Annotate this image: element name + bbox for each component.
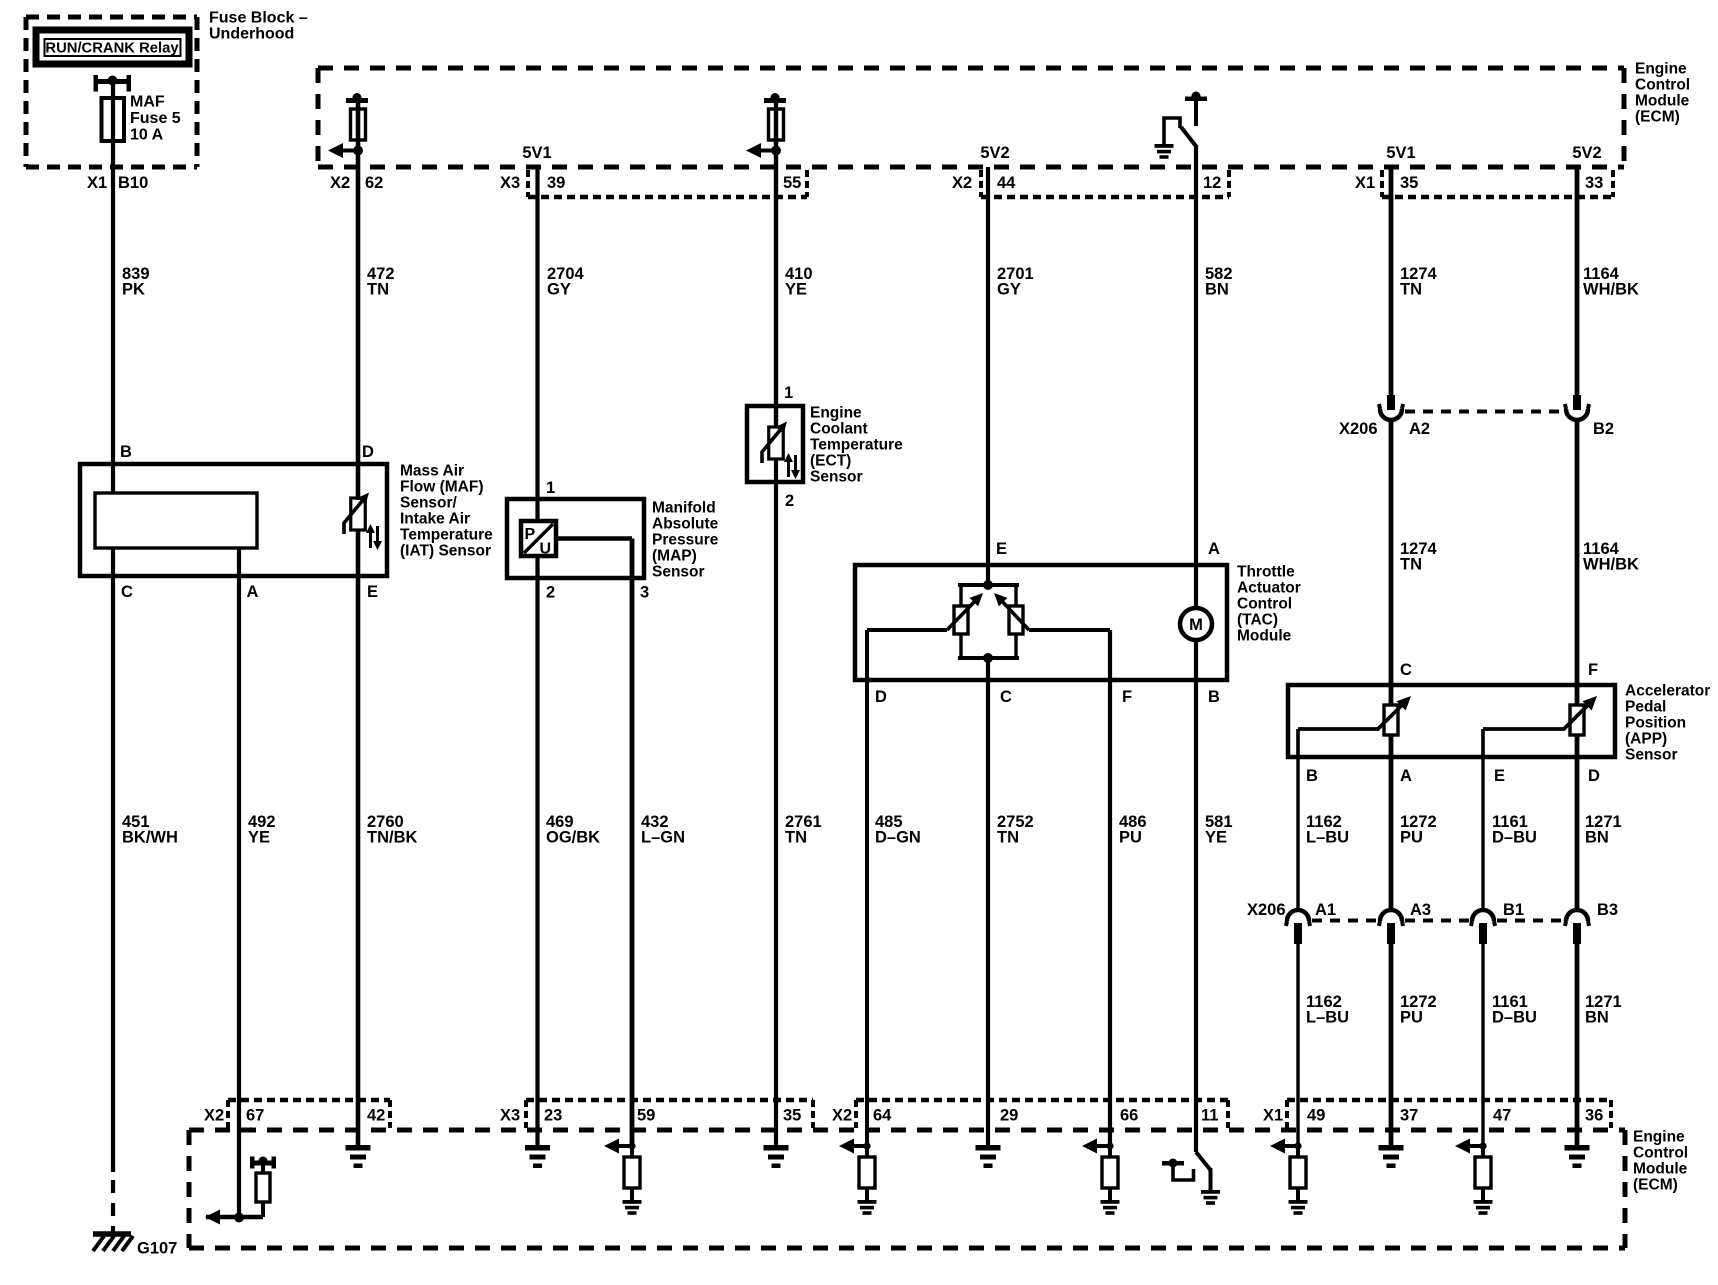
pin 67 pull-up and continuation arrow — [205, 1157, 276, 1225]
APP wiper wire B — [1296, 729, 1299, 757]
svg-text:Pressure: Pressure — [652, 531, 719, 548]
MAP P/U transducer — [521, 521, 556, 558]
wire 1271 BN lower — [1575, 941, 1580, 1146]
svg-text:TN: TN — [785, 828, 807, 846]
ECT sensor box — [747, 406, 803, 482]
5V reference fuse at ECM pin 55 — [746, 93, 786, 158]
APP sensor box — [1288, 685, 1615, 757]
svg-text:37: 37 — [1400, 1107, 1418, 1125]
svg-text:PU: PU — [1119, 828, 1142, 846]
labels X206 A2 B2 — [1339, 420, 1614, 438]
connector X206 B3 — [1565, 910, 1589, 944]
connector X1 pin labels 35 33 — [1355, 174, 1603, 192]
MAP pin numbers 1 2 3 — [546, 479, 649, 602]
svg-text:64: 64 — [873, 1107, 892, 1125]
svg-text:M: M — [1189, 616, 1203, 634]
svg-text:A2: A2 — [1409, 420, 1430, 438]
label Engine Control Module (ECM) bottom right — [1633, 1128, 1688, 1193]
wire 410 YE — [774, 100, 778, 428]
svg-text:Mass Air: Mass Air — [400, 462, 464, 479]
svg-text:D–BU: D–BU — [1492, 1008, 1537, 1026]
fuse MAF Fuse 5 10A — [94, 75, 132, 141]
svg-text:Module: Module — [1633, 1160, 1688, 1177]
svg-text:TN: TN — [1400, 280, 1422, 298]
svg-text:A: A — [1400, 767, 1412, 785]
svg-text:Actuator: Actuator — [1237, 579, 1301, 596]
svg-text:A: A — [1208, 540, 1220, 558]
ECM top dashed box — [318, 68, 1624, 167]
wire 839 PK — [111, 83, 115, 493]
wire 1272 PU lower — [1389, 941, 1394, 1146]
wire 2701 GY — [986, 167, 990, 585]
label Throttle Actuator Control (TAC) Module — [1237, 563, 1301, 644]
wire 451 BK/WH — [111, 548, 115, 1172]
ECT pin numbers 1 2 — [784, 384, 794, 510]
svg-text:G107: G107 — [137, 1240, 177, 1258]
wire 432 L-GN — [556, 536, 632, 541]
ground G107 — [93, 1234, 133, 1251]
wire 451 BK/WH dashed to G107 — [111, 1180, 115, 1233]
svg-text:Absolute: Absolute — [652, 515, 719, 532]
svg-text:Throttle: Throttle — [1237, 563, 1295, 580]
svg-text:X2: X2 — [832, 1107, 852, 1125]
connector X3 pins 39 55 dotted box — [528, 170, 807, 197]
connector X2 pin labels 44 12 — [952, 174, 1221, 192]
APP wiper wire E — [1481, 729, 1484, 757]
svg-text:WH/BK: WH/BK — [1583, 280, 1639, 298]
svg-text:PU: PU — [1400, 1008, 1423, 1026]
pin 47 termination arrow resistor ground — [1455, 1139, 1493, 1215]
TAC wiper wire F — [1029, 628, 1110, 632]
svg-text:(TAC): (TAC) — [1237, 611, 1278, 628]
svg-text:(IAT) Sensor: (IAT) Sensor — [400, 542, 491, 559]
wire 1161 D-BU upper — [1481, 729, 1484, 909]
wire 472 TN — [356, 100, 361, 500]
pin 42 ground — [346, 1145, 371, 1168]
svg-text:1: 1 — [784, 384, 793, 402]
svg-text:12: 12 — [1203, 174, 1221, 192]
svg-text:BN: BN — [1585, 1008, 1609, 1026]
svg-text:39: 39 — [547, 174, 565, 192]
wire 2752 TN — [986, 658, 990, 1146]
svg-text:X2: X2 — [204, 1107, 224, 1125]
svg-text:66: 66 — [1120, 1107, 1138, 1125]
connector X2 labels 67 42 — [204, 1107, 385, 1125]
wire 486 PU — [1108, 630, 1112, 1146]
svg-text:D: D — [875, 688, 887, 706]
svg-text:YE: YE — [1205, 828, 1227, 846]
wire 469 OG/BK — [535, 556, 539, 1146]
svg-text:Fuse Block –: Fuse Block – — [209, 10, 308, 27]
svg-text:(APP): (APP) — [1625, 730, 1667, 747]
connector X3 labels 23 59 35 — [500, 1107, 801, 1125]
svg-text:C: C — [1400, 661, 1412, 679]
svg-text:E: E — [996, 540, 1007, 558]
svg-text:47: 47 — [1493, 1107, 1511, 1125]
svg-text:A1: A1 — [1315, 901, 1336, 919]
svg-text:33: 33 — [1585, 174, 1603, 192]
ECM bottom dashed box — [189, 1130, 1625, 1248]
svg-text:TN: TN — [1400, 555, 1422, 573]
X206 upper dashed link — [1405, 410, 1563, 414]
svg-text:3: 3 — [640, 584, 649, 602]
svg-text:Control: Control — [1633, 1144, 1688, 1161]
wire 1164 WH/BK upper — [1575, 167, 1580, 396]
svg-text:11: 11 — [1201, 1107, 1218, 1125]
APP potentiometer 2 — [1483, 696, 1597, 735]
svg-text:Intake Air: Intake Air — [400, 510, 470, 527]
svg-text:TN/BK: TN/BK — [367, 828, 417, 846]
svg-text:X206: X206 — [1247, 901, 1286, 919]
svg-text:67: 67 — [246, 1107, 264, 1125]
svg-text:X1: X1 — [1355, 174, 1375, 192]
svg-text:Control: Control — [1237, 595, 1292, 612]
svg-text:X1: X1 — [1263, 1107, 1283, 1125]
pin 66 termination arrow resistor ground — [1082, 1139, 1120, 1215]
svg-text:44: 44 — [997, 174, 1016, 192]
svg-text:B: B — [120, 443, 132, 461]
svg-text:OG/BK: OG/BK — [546, 828, 600, 846]
connector X206 B1 — [1471, 910, 1495, 944]
wire 1161 D-BU lower — [1481, 941, 1484, 1146]
connector X206 A3 — [1379, 910, 1403, 944]
ECT thermistor — [762, 422, 800, 480]
svg-text:L–GN: L–GN — [641, 828, 685, 846]
svg-text:B10: B10 — [118, 174, 148, 192]
pin 11 ground switch — [1162, 1152, 1220, 1205]
connector X2 pins 64 29 66 11 dotted box — [856, 1100, 1228, 1128]
svg-text:X3: X3 — [500, 174, 520, 192]
svg-text:42: 42 — [367, 1107, 385, 1125]
svg-text:59: 59 — [637, 1107, 655, 1125]
svg-text:49: 49 — [1307, 1107, 1325, 1125]
MAF sensor inner element — [95, 493, 257, 548]
svg-text:BN: BN — [1205, 280, 1229, 298]
svg-text:Control: Control — [1635, 76, 1690, 93]
connector X1 pins 49 37 47 36 dotted box — [1287, 1100, 1611, 1128]
svg-text:5V2: 5V2 — [980, 144, 1009, 162]
svg-text:BN: BN — [1585, 828, 1609, 846]
ground switch at ECM pin 12 — [1155, 92, 1208, 159]
X206 lower dashed links — [1312, 919, 1563, 923]
svg-text:X206: X206 — [1339, 420, 1378, 438]
connector X1 pin B10 labels — [87, 174, 148, 192]
svg-text:L–BU: L–BU — [1306, 1008, 1349, 1026]
svg-text:GY: GY — [997, 280, 1021, 298]
svg-text:E: E — [1494, 767, 1505, 785]
connector X1 labels 49 37 47 36 — [1263, 1107, 1603, 1125]
pin 49 termination arrow resistor ground — [1270, 1139, 1308, 1215]
label Fuse Block - Underhood — [209, 10, 308, 43]
wire 2760 TN/BK — [356, 530, 361, 1146]
svg-text:(ECM): (ECM) — [1635, 108, 1680, 125]
IAT thermistor — [344, 493, 382, 551]
relay RUN/CRANK Relay — [36, 30, 189, 64]
svg-text:E: E — [367, 583, 378, 601]
svg-text:D–GN: D–GN — [875, 828, 921, 846]
connector X2 pin 62 labels — [330, 174, 383, 192]
svg-text:MAF: MAF — [130, 94, 165, 111]
svg-text:Coolant: Coolant — [810, 420, 868, 437]
svg-text:BK/WH: BK/WH — [122, 828, 178, 846]
svg-text:YE: YE — [248, 828, 270, 846]
connector X2 pins 44 12 dotted box — [981, 170, 1229, 197]
connector X3 pins 23 59 35 dotted box — [526, 1100, 813, 1128]
fuse block underhood dashed box — [26, 17, 197, 167]
svg-text:Position: Position — [1625, 714, 1686, 731]
connector X3 pin labels 39 55 — [500, 174, 801, 192]
MAF/IAT sensor box — [80, 464, 387, 576]
wire 1274 TN lower — [1389, 420, 1394, 705]
TAC motor M — [1180, 608, 1212, 640]
label Engine Coolant Temperature (ECT) Sensor — [810, 404, 903, 485]
MAF pin letters B D C A E — [120, 443, 378, 601]
svg-text:D–BU: D–BU — [1492, 828, 1537, 846]
pin 59 termination arrow resistor ground — [604, 1139, 642, 1215]
svg-text:X2: X2 — [952, 174, 972, 192]
svg-text:Flow (MAF): Flow (MAF) — [400, 478, 484, 495]
svg-text:RUN/CRANK Relay: RUN/CRANK Relay — [45, 41, 179, 57]
svg-text:Underhood: Underhood — [209, 25, 294, 42]
svg-text:Engine: Engine — [810, 404, 862, 421]
label Accelerator Pedal Position (APP) Sensor — [1625, 682, 1710, 763]
svg-text:Manifold: Manifold — [652, 499, 716, 516]
pin 64 termination arrow resistor ground — [839, 1139, 877, 1215]
svg-text:A: A — [247, 583, 259, 601]
svg-text:A3: A3 — [1410, 901, 1431, 919]
svg-text:B: B — [1306, 767, 1318, 785]
5V reference fuse at ECM pin 62 — [328, 93, 368, 158]
svg-text:B: B — [1208, 688, 1220, 706]
pin 35 ground — [764, 1145, 789, 1168]
svg-text:YE: YE — [785, 280, 807, 298]
svg-text:P: P — [525, 526, 536, 543]
svg-text:Temperature: Temperature — [810, 436, 903, 453]
svg-text:GY: GY — [547, 280, 571, 298]
svg-text:PK: PK — [122, 280, 145, 298]
wire 1162 L-BU lower — [1296, 941, 1299, 1146]
pin 36 ground — [1565, 1145, 1590, 1168]
svg-text:C: C — [1000, 688, 1012, 706]
wire 2704 GY — [535, 167, 539, 521]
pin 29 ground — [976, 1145, 1001, 1168]
svg-text:Sensor: Sensor — [810, 468, 863, 485]
wire 1162 L-BU upper — [1296, 729, 1299, 909]
connector X2 labels 64 29 66 11 — [832, 1107, 1218, 1125]
connector X2 pins 67 42 dotted box — [228, 1100, 390, 1128]
svg-text:10 A: 10 A — [130, 126, 164, 143]
wire 582 BN — [1194, 147, 1198, 608]
svg-text:5V1: 5V1 — [522, 144, 551, 162]
wire 581 YE — [1194, 640, 1198, 1152]
svg-text:B1: B1 — [1503, 901, 1524, 919]
wire 1274 TN upper — [1389, 167, 1394, 396]
svg-text:L–BU: L–BU — [1306, 828, 1349, 846]
svg-text:35: 35 — [783, 1107, 801, 1125]
TAC module box — [855, 565, 1227, 680]
TAC throttle position sensor bridge — [947, 580, 1029, 663]
svg-text:(ECT): (ECT) — [810, 452, 851, 469]
svg-text:WH/BK: WH/BK — [1583, 555, 1639, 573]
svg-text:Engine: Engine — [1635, 60, 1687, 77]
svg-text:Fuse 5: Fuse 5 — [130, 110, 181, 127]
connector X1 pins 35 33 dotted box — [1382, 170, 1613, 197]
label MAF Fuse 5 10 A — [130, 94, 181, 144]
svg-text:2: 2 — [785, 492, 794, 510]
svg-text:Module: Module — [1237, 627, 1292, 644]
wire 485 D-GN — [865, 630, 869, 1146]
wire 1271 BN upper — [1575, 735, 1580, 909]
connector X206 A1 — [1286, 910, 1310, 944]
svg-text:X1: X1 — [87, 174, 107, 192]
TAC pin letters E A D C F B — [875, 540, 1220, 706]
svg-text:C: C — [121, 583, 133, 601]
APP potentiometer 1 — [1298, 696, 1411, 735]
APP pin letters C F B A E D — [1306, 661, 1600, 785]
wire 492 YE — [237, 548, 241, 1219]
svg-text:Sensor/: Sensor/ — [400, 494, 458, 511]
svg-text:X3: X3 — [500, 1107, 520, 1125]
connector X206 A2 — [1379, 395, 1403, 420]
svg-text:35: 35 — [1400, 174, 1418, 192]
svg-text:5V1: 5V1 — [1386, 144, 1415, 162]
svg-text:TN: TN — [997, 828, 1019, 846]
svg-text:D: D — [362, 443, 374, 461]
svg-text:Temperature: Temperature — [400, 526, 493, 543]
svg-text:F: F — [1588, 661, 1598, 679]
svg-text:X2: X2 — [330, 174, 350, 192]
svg-text:PU: PU — [1400, 828, 1423, 846]
svg-text:55: 55 — [783, 174, 801, 192]
MAP sensor box — [507, 499, 644, 578]
pin 23 ground — [525, 1145, 550, 1168]
svg-text:(ECM): (ECM) — [1633, 1176, 1678, 1193]
label Manifold Absolute Pressure (MAP) Sensor — [652, 499, 719, 580]
svg-text:36: 36 — [1585, 1107, 1603, 1125]
pin 37 ground — [1379, 1145, 1404, 1168]
connector X206 B2 — [1565, 395, 1589, 420]
svg-text:(MAP): (MAP) — [652, 547, 697, 564]
svg-text:2: 2 — [546, 584, 555, 602]
svg-text:TN: TN — [367, 280, 389, 298]
svg-text:1: 1 — [546, 479, 555, 497]
wire 1272 PU upper — [1389, 735, 1394, 909]
svg-text:29: 29 — [1000, 1107, 1018, 1125]
svg-text:B3: B3 — [1597, 901, 1618, 919]
TAC wiper wire D — [867, 628, 947, 632]
svg-text:Sensor: Sensor — [652, 563, 705, 580]
svg-text:B2: B2 — [1593, 420, 1614, 438]
label Engine Control Module (ECM) top right — [1635, 60, 1690, 125]
wire 2761 TN — [774, 459, 778, 1146]
svg-text:Accelerator: Accelerator — [1625, 682, 1710, 699]
svg-text:Pedal: Pedal — [1625, 698, 1666, 715]
svg-text:62: 62 — [365, 174, 383, 192]
svg-text:D: D — [1588, 767, 1600, 785]
labels X206 A1 A3 B1 B3 — [1247, 901, 1618, 919]
label Mass Air Flow (MAF) Sensor / Intake Air Temperature (IAT) Sensor — [400, 462, 493, 559]
svg-text:23: 23 — [544, 1107, 562, 1125]
svg-text:5V2: 5V2 — [1572, 144, 1601, 162]
svg-text:Module: Module — [1635, 92, 1690, 109]
svg-text:U: U — [540, 541, 552, 558]
svg-text:Sensor: Sensor — [1625, 746, 1678, 763]
svg-text:Engine: Engine — [1633, 1128, 1685, 1145]
wire 1164 WH/BK mid — [1575, 420, 1580, 705]
svg-text:F: F — [1122, 688, 1132, 706]
